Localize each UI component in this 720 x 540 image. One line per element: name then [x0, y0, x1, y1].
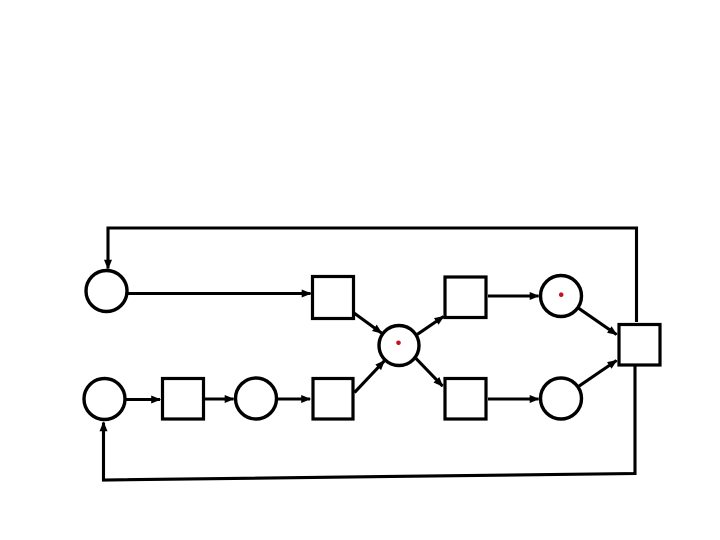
- place P4: [84, 379, 125, 420]
- wire P2 to T2: [417, 317, 443, 335]
- wire P3 to T3: [579, 308, 617, 334]
- place P3: [541, 276, 582, 317]
- place P5: [236, 378, 277, 419]
- place P2: [379, 326, 419, 366]
- place P1: [86, 271, 127, 312]
- transition T5: [313, 379, 353, 420]
- wire P6 to T3: [579, 361, 617, 387]
- wire T5 to P2: [355, 361, 385, 393]
- transition T4: [163, 379, 204, 420]
- wire P2 to T6: [416, 359, 442, 386]
- transition T2: [445, 277, 486, 318]
- wire P4 to T4: [127, 398, 161, 401]
- wire P5 to T5: [278, 397, 311, 400]
- wire T6 to P6: [488, 397, 539, 400]
- place P6: [541, 378, 582, 419]
- wire T2 to P3: [488, 294, 539, 297]
- transition T3: [619, 325, 660, 366]
- token in P3: [559, 292, 564, 297]
- wire T4 to P5: [205, 397, 234, 400]
- wire P1 to T1: [127, 292, 311, 295]
- wire feedback loop bottom: T3 bottom down, slanted across, up to P4: [104, 365, 636, 480]
- wire T1 to P2: [354, 313, 382, 333]
- token in P2: [396, 341, 401, 346]
- transition T1: [313, 277, 354, 319]
- transition T6: [445, 379, 486, 420]
- wire feedback loop top: T3 top up, across, down to P1: [108, 228, 637, 322]
